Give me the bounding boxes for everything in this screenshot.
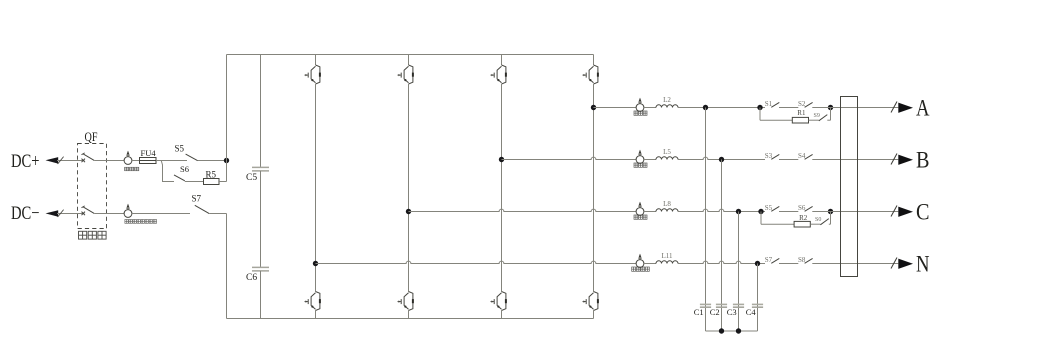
node DC- arrow [46,210,59,217]
capacitor C3 [733,304,744,307]
switch S6 blade [174,175,185,181]
wire branch A up [830,108,832,121]
wire phase C (leg to sensor) [409,209,637,211]
wire capacitor column bottom [260,271,262,319]
node junction phase N x=757.5 [755,261,760,266]
transistor V1 (top IGBT) [305,65,321,84]
svg-text:C6: C6 [246,273,257,283]
wire top rail [227,54,594,56]
svg-text:S0: S0 [815,217,821,223]
breaker QF pole 2 [78,206,107,215]
switch S5 [765,204,780,212]
wire bottom rail [227,318,594,320]
output slash A [891,102,897,113]
wire phase A to output [812,107,898,109]
wire S6 to R5 [185,181,204,183]
wire sensor to inductor C [644,211,656,213]
transistor V7 (bottom IGBT) [491,292,507,311]
wire left vertical upper [226,55,228,161]
capacitor C1 [700,304,711,307]
wire phase N (leg to sensor) [316,261,637,263]
wire sensor to inductor B [644,159,656,161]
wire branch C up [830,212,832,225]
switch S8 [798,256,813,264]
wire leg 2 bottom stub [408,311,410,319]
switch S7 [765,256,780,264]
wire leg 3 bottom stub [501,311,503,319]
wire inductor to switches A [678,107,765,109]
svg-text:S7: S7 [192,193,202,203]
wire sensor to inductor A [644,107,656,109]
wire hall 2 feed (DC- to S7) [107,213,125,215]
wire sensor to inductor N [644,263,656,265]
svg-text:C1: C1 [694,307,704,317]
breaker name label (CJK) [79,231,107,239]
node junction phase A x=830.5 [828,105,833,110]
wire left vertical lower [226,214,228,319]
wire R2 to S10 [810,223,820,225]
wire leg 4 middle [593,84,595,292]
current sensor hall DC- [124,204,132,218]
wire leg 3 middle [501,84,503,292]
wire branch A down [759,108,761,121]
switch S2 [798,100,813,108]
wire capacitor drop C1 [705,108,707,332]
wire QF to hall sensor 1 [107,160,125,162]
wire phase C to output [812,211,898,213]
inductor L11 [656,261,678,264]
fuse FU4 [140,158,157,164]
svg-text:C4: C4 [746,307,757,317]
svg-text:FU4: FU4 [141,148,157,158]
transistor V5 (bottom IGBT) [305,292,321,311]
output slash N [891,258,897,269]
wire capacitor column top [260,55,262,168]
capacitor C4 [752,304,763,307]
hall C label (CJK) [634,215,647,219]
wire phase B (leg to sensor) [502,157,637,159]
wire DC+ input [57,160,78,162]
output slash B [891,154,897,165]
wire inductor to switches B [678,157,765,159]
node bus junction 2 [736,328,741,333]
current sensor hall B [636,150,644,164]
wire S7 to corner [209,213,226,215]
capacitor C5 [252,167,269,171]
hall 1 label (CJK) [125,167,139,170]
wire inductor to switches N [678,261,765,263]
node DC+ arrow [46,157,59,164]
wire leg 2 middle [408,84,410,292]
svg-text:C2: C2 [710,307,720,317]
current sensor hall A [636,98,644,112]
wire between switches C [779,211,798,213]
node junction phase A x=760 [757,105,762,110]
current sensor hall 1 [124,151,132,165]
node phase C tap [406,209,411,214]
wire leg 3 top stub [501,55,503,66]
wire capacitor column middle [260,171,262,268]
current sensor hall C [636,202,644,216]
svg-text:S9: S9 [814,113,820,119]
svg-text:R2: R2 [799,214,808,222]
wire hall to S7 [132,213,190,215]
svg-text:C: C [916,200,930,225]
output slash C [891,206,897,217]
node phase N tap [313,261,318,266]
wire leg 2 top stub [408,55,410,66]
hall A label (CJK) [634,111,647,115]
output arrow C [898,207,913,217]
node junction phase B x=721.5 [719,157,724,162]
svg-text:DC−: DC− [11,203,40,224]
breaker QF dashed box [78,144,107,229]
svg-text:B: B [916,148,930,173]
wire branch A horizontal [760,119,792,121]
inductor L8 [656,209,678,212]
svg-text:A: A [916,96,930,121]
hall N label (CJK) [632,267,650,271]
wire fork to S6 branch [161,161,174,182]
current sensor hall N [636,254,644,268]
wire phase B to output [812,159,898,161]
wire capacitor bank bus [706,330,758,332]
wire capacitor drop C4 [757,264,759,332]
wire leg 1 bottom stub [315,311,317,319]
inductor L5 [656,157,678,160]
wire capacitor drop C2 [721,160,723,332]
wire R5 to vertical [219,181,227,183]
hall DC- label (CJK) [125,220,157,224]
transistor V4 (top IGBT) [583,65,599,84]
node junction phase C x=761 [758,209,763,214]
wire inductor to switches C [678,209,765,211]
node junction phase C x=738.5 [736,209,741,214]
wire branch C down [760,212,762,225]
slash mark DC- [58,210,64,217]
svg-text:QF: QF [85,130,98,144]
wire DC- input [57,213,78,215]
wire phase N to output [812,263,898,265]
wire leg 4 top stub [593,55,595,66]
wire R1 to S9 [809,119,819,121]
switch S9 blade [819,115,828,121]
wire between switches A [779,107,798,109]
slash mark DC+ [58,157,64,164]
wire fuse to S5 fork [156,160,187,162]
node phase A tap [591,105,596,110]
node S5/R5 junction [224,158,229,163]
wire capacitor drop C3 [738,212,740,332]
svg-text:N: N [916,252,930,277]
svg-text:L11: L11 [661,252,673,260]
switch S4 [798,152,813,160]
wire between switches N [779,263,798,265]
switch S3 [765,152,780,160]
resistor R1 [792,117,808,123]
svg-text:S5: S5 [175,144,185,154]
node junction phase C x=830.5 [828,209,833,214]
capacitor C6 [252,267,269,271]
hall B label (CJK) [634,163,647,167]
svg-text:R5: R5 [206,169,217,179]
capacitor C2 [716,304,727,307]
node phase B tap [499,157,504,162]
transistor V6 (bottom IGBT) [398,292,414,311]
wire leg 4 bottom stub [593,311,595,319]
output arrow N [898,259,913,269]
wire S5 to node [198,160,227,162]
switch S7 blade [195,205,209,213]
transistor V2 (top IGBT) [398,65,414,84]
switch S6 [798,204,813,212]
wire branch C horizontal [761,223,794,225]
svg-text:C3: C3 [727,307,737,317]
node junction phase A x=705.5 [703,105,708,110]
svg-text:L2: L2 [663,96,671,104]
resistor R5 [204,179,220,185]
svg-text:DC+: DC+ [11,151,40,172]
svg-text:L5: L5 [663,148,671,156]
breaker QF pole 1 [78,153,107,162]
svg-text:L8: L8 [663,200,671,208]
resistor R2 [794,221,810,227]
wire leg 1 middle [315,84,317,292]
svg-text:C5: C5 [246,173,257,183]
wire hall 1 to fuse FU4 [132,160,140,162]
transistor V3 (top IGBT) [491,65,507,84]
switch S5 blade [186,154,198,161]
wire leg 1 top stub [315,55,317,66]
output arrow A [898,103,913,113]
inductor L2 [656,105,678,108]
terminal block XT [841,97,858,277]
wire phase A (leg to sensor) [594,107,637,109]
transistor V8 (bottom IGBT) [583,292,599,311]
svg-text:S6: S6 [180,164,189,174]
node bus junction 1 [719,328,724,333]
switch S1 [765,100,780,108]
svg-text:R1: R1 [797,109,806,117]
output arrow B [898,155,913,165]
switch S10 blade [820,219,828,225]
wire R5 branch up to node [226,161,228,182]
wire between switches B [779,159,798,161]
